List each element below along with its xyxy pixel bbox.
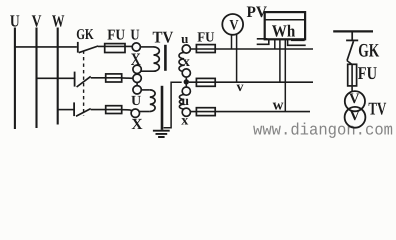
svg-text:w: w: [273, 97, 284, 113]
terminal X of TV2: [131, 109, 139, 117]
wire U of TV2 to winding: [141, 89, 150, 91]
wire W busbar: [57, 28, 59, 125]
wire dot to u2: [185, 84, 187, 87]
fuse FU single-line: [348, 64, 357, 86]
terminal U of TV1: [132, 43, 140, 51]
wire U phase tap: [15, 46, 77, 48]
svg-text:TV: TV: [368, 99, 386, 119]
terminal u of TV2 secondary: [182, 87, 190, 95]
wire U busbar: [14, 28, 16, 130]
winding TV1 primary: [154, 47, 160, 71]
switch GK linkage dashed: [83, 51, 85, 117]
wire Wh current terminal right outer: [288, 39, 306, 45]
switch GK single-line blade: [347, 41, 354, 60]
svg-text:x: x: [183, 54, 191, 70]
wire fuse3 to X of TV2: [122, 110, 133, 111]
svg-text:u: u: [181, 31, 188, 46]
terminal u of TV1 secondary: [182, 45, 190, 53]
svg-text:U: U: [130, 27, 139, 43]
wire junction to U of TV2: [136, 82, 138, 85]
svg-text:V: V: [349, 91, 360, 107]
terminal x of TV1 secondary: [182, 69, 190, 77]
svg-text:GK: GK: [76, 27, 94, 43]
terminal x of TV2 secondary: [182, 108, 190, 116]
terminal U of TV2: [133, 86, 141, 94]
fuse FU net v: [196, 78, 215, 86]
watt-hour meter Wh box: [265, 12, 305, 39]
svg-text:V: V: [229, 17, 239, 33]
wire Wh lead to net u: [274, 39, 276, 49]
fuse FU phase W: [106, 106, 122, 114]
wire through fuse: [351, 64, 353, 91]
switch GK pole 2 fixed contact: [74, 72, 76, 87]
wire PV lead right: [236, 34, 238, 82]
svg-text:FU: FU: [358, 63, 377, 83]
svg-text:X: X: [131, 116, 143, 133]
svg-text:v: v: [237, 80, 244, 95]
wire Wh lead to net v: [279, 39, 281, 82]
fuse FU net u: [196, 45, 215, 53]
core TV1: [164, 45, 167, 71]
svg-text:FU: FU: [197, 30, 214, 45]
wire single-line bus: [333, 30, 373, 32]
svg-text:x: x: [181, 114, 188, 129]
winding TV2 secondary: [179, 95, 184, 109]
ground: [153, 131, 170, 137]
wire net v: [189, 81, 313, 83]
wire Wh current terminal right inner: [292, 39, 305, 40]
wire blade to fuse: [347, 61, 352, 65]
transformer TV circle 1: [345, 91, 365, 111]
wire X to V junction: [136, 72, 138, 75]
core TV2: [161, 86, 164, 130]
switch GK pole 2 blade: [77, 76, 91, 87]
wire pole1 to fuse FU1: [98, 45, 132, 47]
svg-text:www.diangon.com: www.diangon.com: [253, 121, 393, 140]
transformer TV circle 2: [345, 107, 366, 128]
switch GK single-line stem: [351, 31, 353, 40]
wire U terminal to winding: [140, 46, 153, 48]
terminal X of TV1: [133, 65, 141, 73]
wire Wh current terminal left inner: [257, 39, 269, 44]
wire earth link from v junction: [164, 82, 182, 127]
winding TV1 secondary: [179, 52, 184, 71]
wire Wh lead to net w: [284, 39, 286, 111]
wire V phase tap: [37, 77, 75, 79]
switch GK single-line fixed contact: [346, 39, 358, 41]
node v junction dot: [184, 79, 189, 84]
winding TV2 primary: [150, 90, 155, 112]
wire pole2 to fuse FU2: [91, 77, 122, 79]
switch GK pole 1 blade: [79, 46, 98, 53]
wire W phase tap: [58, 109, 74, 111]
switch GK pole 3 fixed contact: [73, 102, 75, 116]
fuse FU net w: [196, 108, 215, 116]
terminal V junction: [133, 74, 141, 82]
wire PV lead left: [231, 35, 233, 50]
voltmeter PV: [222, 14, 243, 35]
svg-text:Wh: Wh: [272, 22, 296, 41]
wire winding to X of TV2: [139, 111, 150, 113]
wire V busbar: [35, 28, 37, 129]
wire winding to X terminal: [141, 70, 154, 72]
switch GK pole 1 fixed contact: [77, 42, 79, 53]
wire pole3 to fuse FU3: [91, 109, 122, 111]
svg-text:U: U: [131, 94, 141, 109]
svg-text:TV: TV: [153, 28, 174, 47]
wire fuse2 to junction: [122, 77, 134, 79]
fuse FU phase U: [105, 44, 125, 53]
svg-text:V: V: [350, 108, 361, 124]
watt-hour meter Wh top line: [265, 19, 305, 21]
switch GK pole 3 blade: [76, 109, 91, 117]
wire net w: [190, 111, 310, 113]
wire Wh current terminal left outer: [257, 38, 267, 41]
svg-text:GK: GK: [358, 40, 379, 61]
wire x1 to junction dot: [185, 77, 187, 79]
wire net u: [190, 48, 313, 50]
fuse FU phase V: [106, 74, 122, 82]
svg-text:FU: FU: [107, 27, 125, 43]
